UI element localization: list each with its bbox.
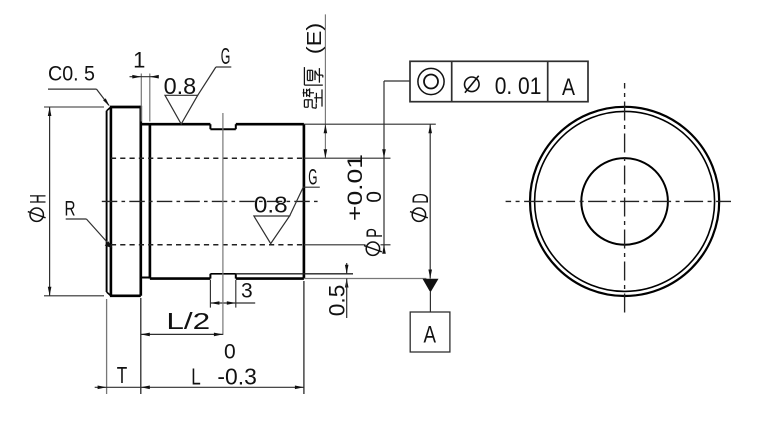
circle view: chamfer circle	[535, 111, 715, 291]
part: groove left wall upper	[209, 124, 211, 129]
dim 0.5: label	[325, 285, 350, 317]
svg-text:A: A	[562, 74, 575, 101]
datum A: filled triangle	[423, 279, 439, 293]
dim PhiD: label (rotated phi+D)	[408, 193, 433, 221]
svg-text:0. 01: 0. 01	[495, 73, 542, 100]
part: body top edge	[141, 123, 211, 126]
svg-text:3: 3	[241, 280, 253, 303]
label wall thickness: (E)	[304, 23, 326, 55]
part: neck bottom edge (1 wide relief)	[141, 277, 150, 279]
dim L: right arrow	[295, 386, 304, 390]
label wall thickness: char HOU	[304, 67, 322, 85]
svg-text:-0.3: -0.3	[217, 364, 256, 390]
label C0.5: arrow at flange corner	[103, 98, 110, 106]
dim PhiD: top arrow	[428, 124, 432, 133]
dim PhiH: top arrow	[48, 107, 52, 116]
dim PhiP: label (rotated phi+P)	[362, 228, 387, 255]
svg-text:0.8: 0.8	[254, 192, 288, 218]
dim 0.5: upper arrow (outside)	[345, 265, 349, 274]
dim PhiD: bottom arrow	[428, 270, 432, 279]
dim 0.5: lower arrow (outside)	[345, 279, 349, 288]
extension: body bottom line to datum	[304, 278, 427, 280]
dim PhiP: dimension line	[383, 81, 385, 254]
svg-text:A: A	[423, 321, 436, 348]
dim L: left arrow	[141, 386, 150, 390]
svg-text:+0.01: +0.01	[344, 154, 367, 221]
svg-text:P: P	[362, 228, 387, 238]
dim 1: dimension line	[130, 76, 158, 78]
dim 3: left arrow	[210, 301, 219, 305]
dim 1: right extension line	[149, 74, 151, 122]
dim 0.5: dimension line upper part	[346, 263, 348, 274]
finish mark 1: flag bar	[216, 66, 231, 68]
label C0.5: leader diagonal	[97, 89, 109, 105]
finish mark 2: triangle	[254, 216, 290, 244]
part: neck/body boundary line	[149, 124, 152, 278]
dim T/L: flange right extension line	[140, 298, 142, 394]
dim PhiP: lower arrow	[382, 245, 386, 254]
svg-text:0: 0	[224, 340, 236, 363]
dim PhiH: bottom arrow	[48, 287, 52, 296]
dim T/L: dimension line	[95, 386, 304, 388]
dim PhiH: dimension line	[49, 107, 51, 296]
circle view: vertical centerline	[624, 83, 626, 315]
part: bore hidden line bottom	[111, 244, 304, 246]
part: groove right wall upper	[235, 124, 237, 129]
svg-text:(E): (E)	[304, 23, 326, 55]
part: groove right wall lower	[235, 274, 237, 279]
svg-text:G: G	[221, 43, 231, 69]
svg-text:H: H	[26, 194, 51, 204]
part: body top edge right of groove	[236, 123, 304, 126]
svg-text:L/2: L/2	[166, 308, 210, 334]
svg-text:0.5: 0.5	[325, 285, 350, 317]
svg-text:L: L	[191, 364, 201, 390]
part: body bottom edge right of groove	[236, 277, 304, 280]
label wall thickness: char BI	[303, 88, 322, 108]
dim 1: left extension line	[140, 74, 142, 122]
label C0.5: underline	[48, 88, 97, 90]
part: groove bottom line lower side	[210, 273, 235, 275]
part: flange top edge	[110, 106, 141, 109]
part: groove left wall lower	[209, 274, 211, 279]
finish mark 1: flag diagonal	[198, 67, 216, 95]
dim 0.5: dimension line lower part	[346, 279, 348, 319]
part: flange bottom edge	[110, 294, 141, 297]
dim PhiD: dimension line	[429, 124, 431, 278]
finish mark 1: triangle	[165, 95, 198, 124]
tolerance frame: concentricity symbol inner	[424, 75, 438, 89]
svg-text:1: 1	[133, 48, 145, 73]
extension: groove bottom line to 0.5 dim	[236, 273, 353, 275]
label R: arrow at bore corner	[105, 241, 113, 248]
finish mark 2: flag diagonal	[290, 187, 304, 216]
datum A: box	[410, 312, 450, 352]
dim PhiH: bottom extension line	[44, 295, 104, 297]
tolerance frame: box	[410, 61, 588, 101]
circle view: outer circle (flange OD)	[530, 107, 719, 296]
svg-text:R: R	[65, 198, 76, 221]
dim T/L: body right extension line	[303, 281, 305, 394]
extension: body top edge to PhiD	[304, 123, 436, 125]
dim PhiH: top extension line	[44, 106, 104, 108]
dim T/L: left extension line (flange face)	[106, 299, 108, 394]
dim T: arrow (outside left)	[98, 386, 107, 390]
tolerance frame: concentricity symbol outer	[418, 68, 444, 94]
dim PhiH: label (rotated phi+H)	[26, 194, 51, 221]
tolerance frame: divider 1	[451, 61, 453, 101]
tolerance frame: phi symbol	[465, 77, 480, 92]
circle view: bore circle	[581, 158, 668, 245]
extension: bore bottom line right seg1	[304, 244, 366, 246]
part: groove bottom line upper side	[210, 128, 235, 130]
dim PhiP: tolerance 0	[363, 191, 386, 203]
part: body bottom edge left of groove	[150, 277, 211, 280]
part: flange top chamfer diagonal	[107, 107, 111, 111]
dim wall thickness: upper arrow	[324, 124, 328, 133]
tolerance frame: divider 2	[547, 61, 549, 101]
part: body right end face edge	[303, 124, 306, 278]
dim L/2: left arrow	[141, 333, 150, 337]
part: bore hidden line top	[111, 157, 304, 159]
dim L/2: right arrow	[214, 333, 223, 337]
dim L/2: groove center extension line	[222, 113, 224, 335]
part: flange face edge (left, chamfered)	[106, 111, 108, 292]
dim 3: left extension line	[209, 280, 211, 308]
dim 1: right arrow (outside)	[150, 75, 159, 79]
svg-text:0: 0	[363, 191, 386, 203]
dim wall thickness: dimension line upper	[324, 14, 326, 158]
dim 3: dimension line	[210, 302, 255, 304]
svg-text:G: G	[308, 165, 317, 190]
svg-text:D: D	[408, 193, 433, 204]
extension: bore bottom line right seg2	[381, 244, 391, 246]
svg-text:C0. 5: C0. 5	[48, 63, 95, 86]
svg-text:T: T	[117, 362, 128, 388]
tolerance frame: leader horizontal	[384, 80, 410, 82]
circle view: horizontal centerline	[506, 200, 731, 202]
datum A: stem	[429, 292, 431, 312]
extension: bore top line right	[304, 157, 391, 159]
dim PhiP: upper arrow	[382, 149, 386, 158]
part: flange right face edge	[139, 106, 142, 296]
dim 1: left arrow (outside)	[132, 75, 141, 79]
label R: underline	[66, 218, 87, 220]
dim wall thickness: lower arrow	[324, 149, 328, 158]
part: flange chamfer edge line	[110, 107, 113, 296]
finish mark 2: flag bar	[303, 186, 320, 188]
centerline of main view	[102, 200, 318, 202]
part: flange bottom chamfer diagonal	[107, 292, 111, 296]
label R: leader diagonal	[86, 219, 111, 247]
dim L/2: dimension line	[141, 333, 223, 335]
dim 3: right extension line	[235, 280, 237, 308]
dim 3: right arrow	[227, 301, 236, 305]
dim PhiP: tolerance +0.01	[344, 154, 367, 221]
